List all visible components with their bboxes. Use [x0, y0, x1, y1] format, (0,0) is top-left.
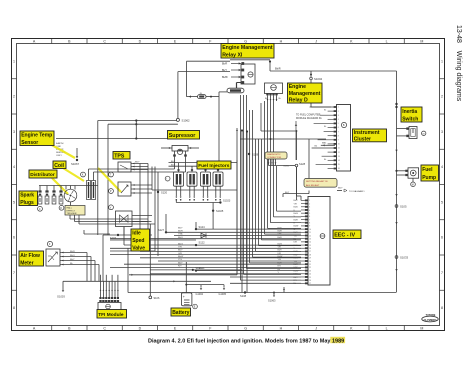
svg-text:Engine Temp: Engine Temp — [21, 133, 52, 139]
svg-text:Pump: Pump — [422, 175, 436, 181]
svg-text:Relay D: Relay D — [289, 98, 308, 104]
svg-text:1: 1 — [338, 107, 339, 109]
svg-text:6: 6 — [13, 236, 15, 240]
svg-text:S1025: S1025 — [216, 210, 224, 213]
svg-text:Plugs: Plugs — [20, 200, 34, 206]
svg-text:S107: S107 — [110, 236, 117, 240]
svg-text:Supressor: Supressor — [169, 133, 197, 139]
svg-text:2: 2 — [309, 203, 310, 205]
svg-text:7: 7 — [13, 271, 15, 275]
svg-text:S1023: S1023 — [223, 200, 231, 203]
svg-text:R/W: R/W — [294, 254, 298, 256]
svg-text:G1003: G1003 — [57, 295, 65, 299]
svg-text:C: C — [39, 208, 41, 211]
svg-text:26: 26 — [309, 280, 311, 282]
svg-text:18: 18 — [309, 254, 311, 256]
svg-text:Bk/Br: Bk/Br — [222, 76, 228, 79]
svg-text:22: 22 — [309, 267, 311, 269]
svg-text:Battery: Battery — [172, 310, 189, 316]
svg-text:5: 5 — [13, 200, 15, 204]
svg-text:Y/R: Y/R — [294, 203, 298, 205]
svg-text:G: G — [244, 326, 247, 330]
svg-text:3: 3 — [309, 207, 310, 209]
svg-text:S124: S124 — [199, 225, 206, 229]
svg-text:TRIGGER: TRIGGER — [67, 213, 77, 215]
svg-text:L: L — [386, 326, 388, 330]
svg-text:9: 9 — [338, 140, 339, 142]
svg-text:23: 23 — [309, 270, 311, 272]
svg-text:14: 14 — [309, 242, 311, 244]
svg-text:9: 9 — [309, 226, 310, 228]
svg-text:11: 11 — [338, 148, 340, 150]
svg-text:Bk/W: Bk/W — [294, 270, 299, 272]
svg-text:S120: S120 — [161, 191, 168, 195]
svg-text:H: H — [280, 40, 283, 44]
svg-text:Bk/Y: Bk/Y — [178, 262, 183, 264]
svg-text:2: 2 — [13, 95, 15, 99]
svg-text:Cluster: Cluster — [354, 136, 371, 142]
svg-text:15: 15 — [338, 164, 340, 166]
svg-text:13: 13 — [338, 156, 340, 158]
svg-text:Bk/Y: Bk/Y — [294, 200, 299, 202]
svg-text:Bk/Y: Bk/Y — [171, 164, 176, 166]
svg-text:DIAGNOSTIC: DIAGNOSTIC — [267, 153, 281, 156]
svg-text:3: 3 — [441, 130, 443, 134]
svg-text:Bk/Bk: Bk/Bk — [284, 166, 291, 168]
svg-text:20: 20 — [309, 261, 311, 263]
svg-text:S1033: S1033 — [400, 256, 409, 260]
svg-text:Bk/R: Bk/R — [178, 231, 183, 233]
svg-text:Bk: Bk — [279, 98, 281, 100]
svg-text:Bk/Y: Bk/Y — [222, 69, 227, 72]
svg-text:D: D — [139, 326, 142, 330]
svg-text:Idle: Idle — [132, 231, 141, 237]
svg-text:Bk/Y: Bk/Y — [178, 250, 183, 252]
svg-text:U/R: U/R — [294, 242, 298, 244]
svg-text:7: 7 — [441, 271, 443, 275]
svg-text:Bk/Y: Bk/Y — [135, 162, 140, 164]
svg-text:Bk/Y: Bk/Y — [70, 259, 75, 261]
svg-text:HALL: HALL — [67, 207, 73, 210]
svg-text:W: W — [294, 229, 296, 231]
svg-text:Y/U: Y/U — [294, 235, 298, 237]
svg-text:Bk/U: Bk/U — [178, 237, 183, 239]
svg-text:TFI Module: TFI Module — [98, 312, 124, 318]
svg-text:L: L — [386, 40, 388, 44]
svg-text:G1002: G1002 — [196, 293, 204, 296]
svg-text:Diagram 4. 2.0 Efi fuel inject: Diagram 4. 2.0 Efi fuel injection and ig… — [148, 338, 344, 344]
svg-text:Bk/R: Bk/R — [222, 63, 227, 66]
svg-text:10: 10 — [309, 229, 311, 231]
svg-text:Sensor: Sensor — [21, 140, 38, 146]
svg-text:CLYMERO: CLYMERO — [424, 318, 437, 322]
svg-text:2: 2 — [338, 111, 339, 113]
svg-text:TPS: TPS — [114, 153, 125, 159]
svg-text:Bk/G: Bk/G — [278, 243, 283, 245]
svg-text:R/Y: R/Y — [178, 266, 182, 268]
svg-text:Bk/R: Bk/R — [294, 264, 299, 266]
svg-text:5: 5 — [338, 123, 339, 125]
svg-text:3: 3 — [338, 115, 339, 117]
svg-text:Bk/G: Bk/G — [294, 258, 299, 260]
svg-text:Fuel Injectors: Fuel Injectors — [198, 163, 230, 169]
svg-text:Engine: Engine — [289, 84, 306, 90]
svg-text:Bk/Y: Bk/Y — [171, 161, 176, 163]
svg-text:ONLY: ONLY — [56, 155, 62, 157]
svg-text:H: H — [280, 326, 283, 330]
svg-text:Valve: Valve — [132, 245, 145, 251]
svg-text:C: C — [103, 326, 106, 330]
svg-text:S123: S123 — [196, 267, 202, 270]
svg-text:15: 15 — [309, 245, 311, 247]
svg-text:Bk/W: Bk/W — [294, 226, 299, 228]
svg-text:SETTING RELAST 30: SETTING RELAST 30 — [306, 180, 328, 183]
svg-text:6: 6 — [338, 127, 339, 129]
svg-text:S1062: S1062 — [182, 119, 191, 123]
svg-text:Y/R: Y/R — [178, 247, 182, 249]
svg-text:S138: S138 — [240, 294, 247, 298]
svg-text:Bk: Bk — [324, 159, 326, 161]
svg-text:Distributor: Distributor — [30, 172, 55, 178]
svg-text:M: M — [420, 40, 423, 44]
svg-text:TUTORE: TUTORE — [426, 314, 436, 317]
svg-text:S127: S127 — [158, 228, 165, 232]
svg-text:+: + — [183, 295, 185, 299]
svg-text:Bk: Bk — [294, 283, 296, 285]
svg-text:16: 16 — [309, 248, 311, 250]
svg-text:Y/R: Y/R — [278, 247, 282, 249]
svg-text:Bk/R: Bk/R — [70, 251, 75, 253]
svg-text:Spark: Spark — [20, 193, 34, 199]
svg-text:6: 6 — [309, 216, 310, 218]
svg-text:U/R: U/R — [178, 253, 182, 255]
svg-text:Bk/G: Bk/G — [294, 213, 299, 215]
svg-text:MODULE DIAGRAM 3A: MODULE DIAGRAM 3A — [296, 117, 322, 120]
svg-text:14: 14 — [338, 160, 340, 162]
svg-text:U/R: U/R — [278, 253, 282, 255]
svg-text:Bk/R: Bk/R — [275, 67, 281, 71]
svg-text:4: 4 — [309, 210, 310, 212]
svg-text:8: 8 — [338, 135, 339, 137]
svg-text:D: D — [60, 207, 62, 210]
svg-text:Bk/U: Bk/U — [70, 255, 75, 257]
svg-text:Coil: Coil — [54, 163, 64, 169]
svg-text:S1004: S1004 — [314, 77, 323, 81]
svg-text:S1067: S1067 — [71, 162, 80, 166]
svg-text:J: J — [315, 326, 317, 330]
svg-text:Air Flow: Air Flow — [20, 253, 40, 259]
svg-text:1: 1 — [309, 200, 310, 202]
svg-text:M: M — [412, 185, 414, 187]
svg-text:CONNECTOR: CONNECTOR — [267, 157, 281, 159]
svg-text:Bk/U: Bk/U — [278, 237, 283, 239]
svg-text:6: 6 — [441, 236, 443, 240]
svg-text:Management: Management — [289, 91, 321, 97]
svg-text:M: M — [423, 133, 425, 135]
svg-text:3: 3 — [13, 130, 15, 134]
svg-text:12: 12 — [309, 235, 311, 237]
svg-text:4: 4 — [338, 119, 339, 121]
svg-text:Y/G: Y/G — [278, 259, 282, 261]
svg-text:4: 4 — [13, 165, 15, 169]
svg-text:12: 12 — [338, 152, 340, 154]
svg-text:Engine Management: Engine Management — [222, 45, 273, 51]
svg-text:S122: S122 — [199, 241, 206, 245]
svg-text:ALE RELAST: ALE RELAST — [306, 184, 320, 187]
svg-text:Bk/Y: Bk/Y — [338, 188, 343, 190]
svg-text:19: 19 — [309, 258, 311, 260]
svg-text:Bk/R: Bk/R — [294, 219, 299, 221]
svg-text:Bk: Bk — [324, 110, 326, 112]
svg-text:27: 27 — [309, 283, 311, 285]
svg-text:Bk/U: Bk/U — [294, 207, 299, 209]
svg-text:1: 1 — [441, 59, 443, 63]
svg-text:8: 8 — [13, 306, 15, 310]
svg-text:Inertia: Inertia — [402, 109, 417, 115]
svg-text:16: 16 — [338, 168, 340, 170]
svg-text:Bk: Bk — [265, 98, 267, 100]
svg-text:Relay XI: Relay XI — [222, 52, 243, 58]
svg-text:S1063: S1063 — [268, 299, 276, 303]
svg-text:Bk: Bk — [278, 269, 280, 271]
svg-text:Bk/Y: Bk/Y — [285, 192, 290, 194]
svg-text:7: 7 — [338, 131, 339, 133]
svg-text:G: G — [244, 40, 247, 44]
svg-text:Sped: Sped — [132, 238, 144, 244]
svg-text:G1005: G1005 — [219, 293, 227, 296]
svg-text:C: C — [103, 40, 106, 44]
svg-text:Switch: Switch — [402, 116, 418, 122]
svg-text:S105: S105 — [400, 205, 407, 209]
svg-text:M: M — [420, 326, 423, 330]
svg-text:S106: S106 — [154, 297, 160, 300]
svg-text:Fuel: Fuel — [422, 167, 433, 173]
svg-text:Bk/R: Bk/R — [278, 231, 283, 233]
svg-text:2: 2 — [441, 95, 443, 99]
svg-text:Y/G: Y/G — [178, 259, 182, 261]
svg-text:5: 5 — [441, 200, 443, 204]
svg-text:17: 17 — [309, 251, 311, 253]
svg-text:10: 10 — [338, 144, 340, 146]
svg-text:Bk/Y: Bk/Y — [294, 277, 299, 279]
svg-text:4: 4 — [441, 165, 443, 169]
svg-text:24: 24 — [309, 274, 311, 276]
svg-text:21: 21 — [309, 264, 311, 266]
svg-text:7: 7 — [309, 219, 310, 221]
svg-text:S128: S128 — [252, 153, 259, 157]
svg-text:Bk/Y: Bk/Y — [178, 227, 183, 229]
svg-text:5: 5 — [309, 213, 310, 215]
svg-text:Meter: Meter — [20, 260, 33, 266]
svg-text:1: 1 — [13, 59, 15, 63]
svg-text:8: 8 — [441, 306, 443, 310]
svg-text:J: J — [315, 40, 317, 44]
svg-text:Instrument: Instrument — [354, 130, 380, 136]
svg-text:D: D — [139, 40, 142, 44]
svg-text:11: 11 — [309, 232, 311, 234]
svg-text:25: 25 — [309, 277, 311, 279]
svg-text:8: 8 — [309, 223, 310, 225]
svg-text:S128: S128 — [299, 162, 306, 166]
svg-text:EARTH: EARTH — [56, 142, 64, 145]
svg-text:13-48 Wiring diagrams: 13-48 Wiring diagrams — [455, 25, 462, 102]
svg-text:TO DIAGRAM 1: TO DIAGRAM 1 — [349, 190, 365, 193]
svg-text:EFFECT: EFFECT — [67, 210, 76, 212]
svg-text:13: 13 — [309, 238, 311, 240]
svg-text:Bk: Bk — [324, 126, 326, 128]
svg-text:EEC - IV: EEC - IV — [334, 233, 355, 239]
